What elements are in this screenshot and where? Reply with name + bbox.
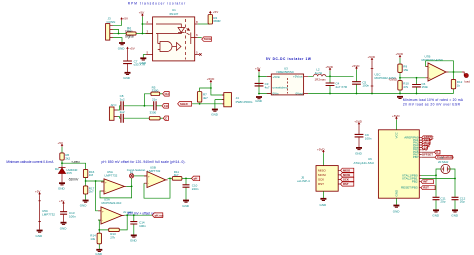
svg-text:20p: 20p bbox=[460, 200, 465, 204]
svg-text:PB7: PB7 bbox=[413, 155, 419, 159]
svg-text:ATtiny441-SSU: ATtiny441-SSU bbox=[354, 161, 374, 165]
svg-text:PWR-PROG: PWR-PROG bbox=[236, 100, 253, 104]
svg-text:2.495V: 2.495V bbox=[71, 161, 80, 165]
svg-text:TACH: TACH bbox=[204, 37, 212, 41]
svg-text:GND: GND bbox=[393, 210, 401, 214]
svg-text:21n: 21n bbox=[152, 97, 157, 101]
svg-text:47k: 47k bbox=[403, 85, 408, 89]
svg-text:+5V: +5V bbox=[255, 66, 260, 70]
svg-text:GND: GND bbox=[80, 203, 88, 207]
svg-text:3300: 3300 bbox=[150, 111, 157, 115]
svg-text:SCK: SCK bbox=[343, 177, 349, 181]
svg-text:MISO: MISO bbox=[318, 168, 326, 172]
svg-text:C: C bbox=[436, 150, 438, 154]
svg-text:150n: 150n bbox=[422, 85, 429, 89]
svg-text:+5Vout: +5Vout bbox=[293, 75, 303, 79]
svg-text:CH: CH bbox=[165, 92, 169, 96]
svg-text:0Vin: 0Vin bbox=[273, 92, 279, 96]
svg-text:4u7 X7R: 4u7 X7R bbox=[335, 85, 348, 89]
svg-text:pH: pH bbox=[194, 177, 198, 181]
svg-text:2k2: 2k2 bbox=[65, 157, 70, 161]
svg-text:GND: GND bbox=[118, 46, 126, 50]
svg-text:0Vout: 0Vout bbox=[296, 92, 304, 96]
svg-text:2.2: 2.2 bbox=[127, 29, 132, 33]
svg-text:CH: CH bbox=[164, 104, 168, 108]
svg-text:+: + bbox=[148, 174, 150, 178]
svg-text:+5Vin: +5Vin bbox=[273, 75, 281, 79]
svg-text:GND: GND bbox=[395, 189, 399, 197]
svg-text:unswitched: unswitched bbox=[273, 85, 288, 89]
svg-text:3300: 3300 bbox=[152, 89, 159, 93]
svg-text:4u7H: 4u7H bbox=[315, 71, 322, 75]
svg-text:1k: 1k bbox=[457, 84, 461, 88]
svg-text:INT: INT bbox=[423, 180, 428, 184]
svg-text:MCP6N22-010: MCP6N22-010 bbox=[102, 201, 122, 205]
svg-text:+5VD: +5VD bbox=[317, 147, 325, 151]
svg-text:GND: GND bbox=[140, 61, 148, 65]
svg-text:C: C bbox=[165, 116, 167, 120]
svg-text:Minimum load 10% of rated = 20: Minimum load 10% of rated = 20 mA bbox=[403, 98, 464, 102]
svg-text:100n: 100n bbox=[362, 84, 369, 88]
svg-text:13k: 13k bbox=[90, 237, 95, 241]
svg-text:OFFSET: OFFSET bbox=[422, 153, 433, 157]
svg-text:GND: GND bbox=[130, 239, 138, 243]
svg-text:1M: 1M bbox=[89, 173, 94, 177]
svg-text:GND: GND bbox=[451, 213, 459, 217]
svg-text:+5V: +5V bbox=[123, 17, 128, 21]
svg-text:GND: GND bbox=[432, 213, 440, 217]
svg-text:MOSI: MOSI bbox=[343, 173, 350, 177]
svg-text:20 MHz: 20 MHz bbox=[438, 160, 449, 164]
svg-text:100n: 100n bbox=[139, 224, 146, 228]
svg-text:MISO: MISO bbox=[343, 168, 351, 172]
svg-text:2u2: 2u2 bbox=[120, 97, 125, 101]
svg-text:+5V: +5V bbox=[213, 10, 218, 14]
svg-text:GND: GND bbox=[60, 226, 67, 230]
svg-text:GND: GND bbox=[355, 151, 363, 155]
svg-text:100n: 100n bbox=[69, 215, 76, 219]
svg-text:VCC: VCC bbox=[395, 131, 399, 138]
svg-text:D2: D2 bbox=[55, 167, 59, 171]
svg-text:+5V: +5V bbox=[139, 10, 144, 14]
svg-text:Minimum cathode current 0.6 mA: Minimum cathode current 0.6 mA bbox=[6, 160, 54, 164]
svg-text:-: - bbox=[429, 65, 430, 69]
svg-text:-: - bbox=[148, 182, 149, 186]
svg-text:GND: GND bbox=[182, 204, 190, 208]
svg-text:5V DC-DC isolator 1W: 5V DC-DC isolator 1W bbox=[266, 57, 311, 61]
svg-text:RESET/PB3: RESET/PB3 bbox=[401, 186, 418, 190]
svg-text:20p: 20p bbox=[440, 200, 445, 204]
svg-text:pH: 850 mV offset for 120..940: pH: 850 mV offset for 120..940mV full sc… bbox=[102, 160, 186, 164]
svg-text:-: - bbox=[105, 190, 106, 194]
svg-text:4k7: 4k7 bbox=[203, 96, 208, 100]
svg-text:GND: GND bbox=[58, 186, 66, 190]
svg-text:SCK: SCK bbox=[318, 177, 324, 181]
svg-text:GND: GND bbox=[320, 203, 328, 207]
svg-text:RST: RST bbox=[343, 182, 349, 186]
svg-text:-530mV: -530mV bbox=[68, 177, 79, 181]
svg-text:LMP7732: LMP7732 bbox=[42, 213, 55, 217]
svg-text:1R2max: 1R2max bbox=[315, 77, 327, 81]
svg-text:2k7: 2k7 bbox=[89, 190, 94, 194]
svg-text:GND: GND bbox=[123, 76, 131, 80]
svg-text:+: + bbox=[102, 209, 104, 213]
svg-text:20 mV load as 20 mV over ESR: 20 mV load as 20 mV over ESR bbox=[403, 103, 461, 107]
svg-text:PB2: PB2 bbox=[412, 180, 418, 184]
svg-text:680R: 680R bbox=[213, 19, 221, 23]
svg-text:2u2: 2u2 bbox=[120, 110, 125, 114]
svg-text:Cond./saturat.: Cond./saturat. bbox=[127, 168, 146, 172]
svg-text:4k7: 4k7 bbox=[174, 173, 179, 177]
svg-text:GND: GND bbox=[36, 234, 44, 238]
svg-text:+2V5D: +2V5D bbox=[389, 78, 398, 82]
svg-text:MOSI: MOSI bbox=[318, 173, 326, 177]
svg-text:+5V: +5V bbox=[129, 47, 134, 51]
svg-text:LMP7732: LMP7732 bbox=[105, 174, 118, 178]
svg-text:RST: RST bbox=[318, 182, 324, 186]
svg-text:load: load bbox=[464, 79, 470, 83]
svg-text:850 mV + offset out: 850 mV + offset out bbox=[128, 211, 156, 215]
svg-text:PA5: PA5 bbox=[422, 148, 428, 152]
svg-text:GND: GND bbox=[211, 112, 219, 116]
svg-text:-: - bbox=[102, 218, 103, 222]
svg-text:ext-ISP-4: ext-ISP-4 bbox=[297, 179, 310, 183]
svg-text:2V5: 2V5 bbox=[67, 171, 73, 175]
svg-text:pH.out: pH.out bbox=[155, 213, 164, 217]
svg-text:+: + bbox=[105, 181, 107, 185]
svg-text:MCP6022-E/SN: MCP6022-E/SN bbox=[422, 58, 443, 62]
svg-text:SHLD: SHLD bbox=[180, 102, 188, 106]
svg-text:100n: 100n bbox=[365, 137, 372, 141]
svg-text:+: + bbox=[429, 76, 431, 80]
svg-text:6N137: 6N137 bbox=[170, 12, 179, 16]
svg-text:27k: 27k bbox=[110, 236, 115, 240]
svg-text:15k: 15k bbox=[403, 68, 408, 72]
svg-text:220n: 220n bbox=[192, 187, 199, 191]
svg-text:RST: RST bbox=[423, 186, 429, 190]
svg-text:4u7: 4u7 bbox=[265, 85, 270, 89]
svg-text:GND: GND bbox=[255, 99, 262, 103]
